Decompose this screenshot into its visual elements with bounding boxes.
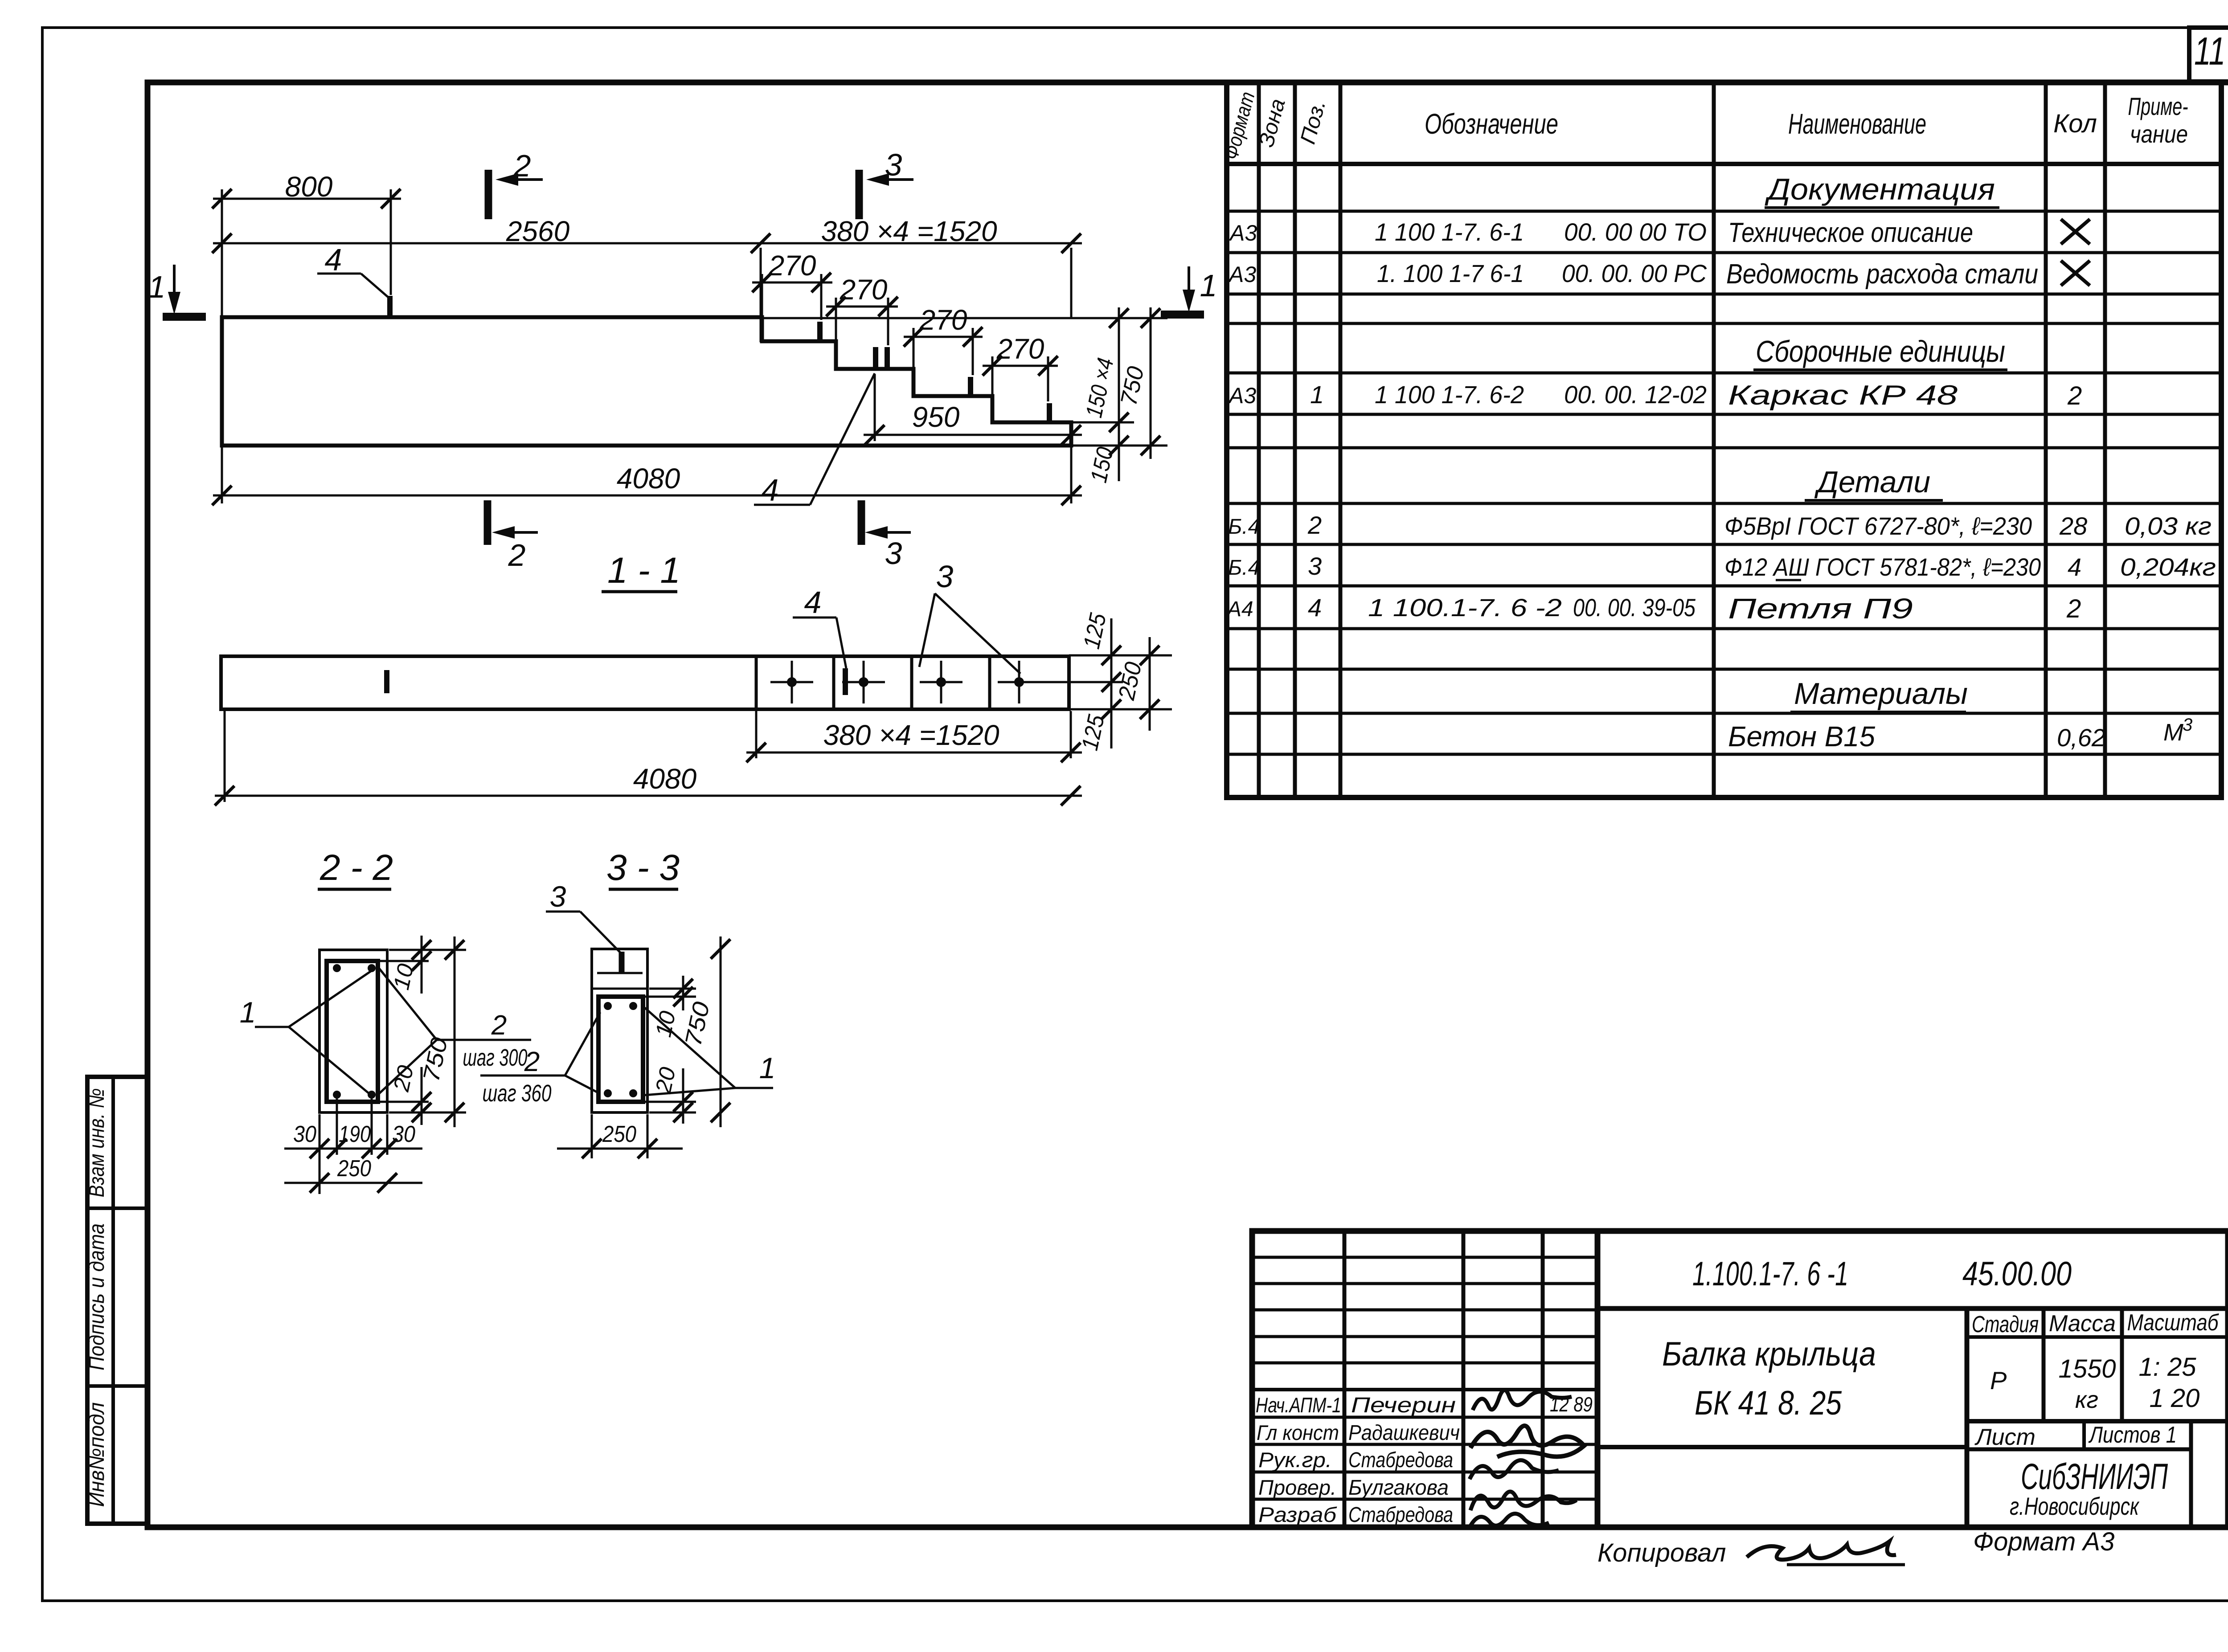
svg-text:Формат А3: Формат А3	[1973, 1527, 2114, 1556]
svg-text:2: 2	[1307, 511, 1322, 539]
lifting loop П9 #3a	[873, 347, 878, 370]
rebar dot top-right	[368, 964, 376, 972]
svg-text:Ф12 АШ ГОСТ 5781-82*, ℓ=230: Ф12 АШ ГОСТ 5781-82*, ℓ=230	[1724, 553, 2041, 581]
section 3-3 stirrup cage	[598, 997, 643, 1102]
масса col divider	[2120, 1309, 2124, 1421]
lifting loop П9 #4	[968, 377, 973, 397]
plan dim 4080	[224, 711, 226, 802]
стадия table divider	[1965, 1309, 1970, 1527]
right ext 1000	[1071, 445, 1167, 447]
svg-text:Р: Р	[1990, 1366, 2007, 1394]
svg-text:2: 2	[524, 1047, 540, 1077]
row rule 1130	[1227, 502, 2221, 505]
svg-text:Петля П9: Петля П9	[1728, 593, 1913, 625]
sidebar label column divider	[111, 1077, 115, 1524]
dim line 2560 / 380x4=1520	[213, 242, 1082, 245]
row rule 1315	[1227, 585, 2221, 588]
svg-text:чание: чание	[2130, 120, 2188, 148]
svg-text:А3: А3	[1228, 383, 1256, 408]
svg-text:4: 4	[762, 473, 779, 507]
svg-text:950: 950	[912, 401, 960, 433]
svg-text:1 100 1-7. 6-1: 1 100 1-7. 6-1	[1375, 218, 1524, 246]
row rule 930	[1227, 413, 2221, 416]
top reference line to right dims	[762, 317, 1167, 319]
signature scribble Печерин	[1473, 1390, 1572, 1410]
rebar dot top-left	[333, 964, 341, 972]
svg-text:Листов 1: Листов 1	[2088, 1422, 2177, 1448]
svg-text:00. 00. 12-02: 00. 00. 12-02	[1564, 380, 1707, 409]
svg-text:А3: А3	[1228, 262, 1256, 287]
signature rows top rule	[1252, 1388, 1597, 1391]
rebar dot bottom-right	[368, 1091, 376, 1099]
section mark 3 top: bar	[856, 170, 863, 219]
dim 20 section 3-3	[645, 1101, 696, 1103]
svg-text:3: 3	[885, 536, 902, 571]
plan divider 3	[910, 656, 913, 709]
svg-text:190: 190	[339, 1121, 371, 1147]
sidebar row divider 1	[87, 1206, 147, 1210]
title block main divider	[1595, 1231, 1601, 1527]
section mark 3 bottom: bar	[858, 500, 865, 545]
left sidebar stamp boxes	[87, 1077, 147, 1524]
row rule 1005	[1227, 446, 2221, 450]
upper stamp row 1	[1252, 1256, 1597, 1259]
ext line left edge top	[221, 189, 223, 317]
копировал signature scribble	[1747, 1542, 1896, 1560]
ext line right edge top	[1070, 248, 1073, 317]
svg-text:Булгакова: Булгакова	[1348, 1476, 1449, 1500]
narrow right col divider	[2189, 1421, 2193, 1527]
row rule 726	[1227, 322, 2221, 325]
svg-text:Инв№подл: Инв№подл	[85, 1403, 109, 1507]
svg-text:2: 2	[2066, 594, 2081, 623]
svg-text:Приме-: Приме-	[2128, 92, 2188, 120]
plan dim line 125/125	[1110, 618, 1113, 748]
loop anchor cross 3	[920, 661, 962, 703]
section mark 3 bottom: arrow	[873, 531, 911, 534]
svg-text:3: 3	[2183, 715, 2192, 735]
doc number band rule	[1597, 1306, 2228, 1311]
svg-text:Рук.гр.: Рук.гр.	[1258, 1448, 1332, 1472]
row rule 1601	[1227, 712, 2221, 715]
row Ведомость: qty X	[2061, 261, 2090, 286]
svg-text:Ф5ВрI ГОСТ 6727-80*, ℓ=230: Ф5ВрI ГОСТ 6727-80*, ℓ=230	[1724, 512, 2032, 540]
beam plan outline	[221, 656, 1069, 709]
plan divider 4	[988, 656, 991, 709]
rebar dot top-left	[604, 1002, 612, 1010]
лист divider	[2082, 1421, 2086, 1449]
svg-text:БК 41 8. 25: БК 41 8. 25	[1695, 1384, 1842, 1422]
svg-text:1: 25: 1: 25	[2139, 1353, 2197, 1382]
svg-text:250: 250	[337, 1156, 371, 1182]
svg-text:А4: А4	[1226, 597, 1253, 621]
upper stamp row 5	[1252, 1362, 1597, 1365]
lifting loop П9 #5	[1047, 403, 1052, 423]
dim 270 #1	[761, 274, 763, 339]
лист row rule	[1967, 1419, 2228, 1423]
signature row rule 5	[1252, 1498, 1597, 1501]
svg-text:800: 800	[285, 171, 333, 203]
svg-text:Техническое описание: Техническое описание	[1728, 217, 1973, 248]
dim 4080 elevation	[221, 447, 223, 503]
section 3-3 bottom ext lines	[591, 1114, 593, 1158]
plan loop bar 2	[843, 668, 848, 695]
ext line step1 top	[760, 248, 762, 342]
svg-text:270: 270	[840, 274, 888, 306]
svg-text:380 ×4 =1520: 380 ×4 =1520	[821, 215, 997, 247]
section mark 1 left: bar	[163, 313, 206, 321]
svg-text:1 100.1-7. 6 -2: 1 100.1-7. 6 -2	[1368, 593, 1562, 622]
svg-text:2: 2	[491, 1010, 507, 1041]
section 3-3 loop bar	[619, 952, 625, 973]
svg-text:Документация: Документация	[1765, 172, 1995, 206]
section 2-2 stirrup cage	[327, 961, 378, 1102]
svg-text:2 - 2: 2 - 2	[319, 847, 393, 888]
plan dim line 250	[1149, 637, 1151, 731]
svg-text:шаг 300: шаг 300	[463, 1044, 528, 1071]
section mark 2 top: bar	[485, 170, 492, 219]
svg-text:Стабредова: Стабредова	[1348, 1503, 1453, 1527]
title block vertical 3462	[1541, 1231, 1545, 1527]
svg-text:1550: 1550	[2058, 1354, 2116, 1383]
svg-text:1 100 1-7. 6-2: 1 100 1-7. 6-2	[1375, 380, 1524, 409]
svg-text:30: 30	[293, 1121, 316, 1147]
svg-text:Копировал: Копировал	[1597, 1538, 1726, 1567]
dim 250 section 3-3	[557, 1148, 683, 1150]
svg-text:1: 1	[240, 996, 256, 1029]
right ext 948	[1071, 421, 1134, 424]
svg-text:Детали: Детали	[1814, 465, 1930, 499]
section 2-2 concrete outline	[319, 950, 387, 1112]
svg-text:Подпись и дата: Подпись и дата	[85, 1223, 109, 1370]
svg-text:Масса: Масса	[2049, 1311, 2116, 1337]
dim 270 #3	[913, 328, 915, 394]
row rule 474	[1227, 210, 2221, 213]
svg-text:Провер.: Провер.	[1258, 1476, 1336, 1499]
svg-text:Материалы: Материалы	[1794, 677, 1968, 711]
svg-text:Ведомость расхода стали: Ведомость расхода стали	[1726, 259, 2038, 290]
section mark 1 right: bar	[1161, 311, 1204, 319]
стадия col divider	[2042, 1309, 2046, 1421]
svg-text:0,62: 0,62	[2057, 724, 2105, 752]
row rule 1222	[1227, 543, 2221, 546]
svg-text:Стадия: Стадия	[1972, 1312, 2039, 1337]
svg-text:270: 270	[919, 304, 967, 336]
row rule 1411	[1227, 627, 2221, 630]
signature scribble Стабредова 2	[1470, 1513, 1549, 1527]
signature scribble Стабредова	[1470, 1460, 1559, 1480]
стадия header rule	[1967, 1335, 2228, 1339]
plan loop bar 1	[384, 670, 389, 693]
loop anchor cross 1	[770, 661, 813, 703]
svg-text:Каркас КР 48: Каркас КР 48	[1728, 380, 1958, 411]
lifting loop П9 #1	[387, 296, 393, 318]
plan right ext mid	[1040, 681, 1123, 683]
svg-text:Печерин: Печерин	[1351, 1394, 1456, 1417]
ext line loop1	[390, 189, 392, 295]
svg-text:1.100.1-7. 6 -1: 1.100.1-7. 6 -1	[1692, 1255, 1848, 1293]
row rule 837	[1227, 372, 2221, 375]
upper stamp row 3	[1252, 1309, 1597, 1312]
svg-text:270: 270	[768, 249, 816, 282]
dim 750 section 3-3	[720, 936, 722, 1127]
svg-text:4: 4	[804, 585, 822, 620]
rebar dot bottom-left	[604, 1089, 612, 1097]
svg-text:2: 2	[513, 148, 531, 183]
section 3-3 concrete outline	[592, 949, 647, 1112]
page number box	[2189, 28, 2228, 82]
svg-text:Масштаб: Масштаб	[2127, 1310, 2219, 1336]
svg-text:3: 3	[936, 559, 954, 594]
лист bottom rule	[1967, 1448, 2191, 1452]
signature row rule 2	[1252, 1416, 1597, 1419]
spec table outer box	[1227, 82, 2221, 797]
name box rule	[1597, 1445, 1967, 1449]
upper stamp row 2	[1252, 1282, 1597, 1285]
lifting loop П9 #3b	[885, 347, 890, 370]
svg-text:3: 3	[1308, 552, 1322, 580]
section mark 2 top: arrow	[504, 178, 543, 181]
signature scribble Радашкевич	[1470, 1426, 1584, 1457]
svg-text:3: 3	[885, 147, 902, 182]
svg-text:Взам инв. №: Взам инв. №	[85, 1088, 109, 1198]
row rule 1693	[1227, 753, 2221, 756]
svg-text:М: М	[2163, 719, 2183, 746]
upper stamp row 4	[1252, 1335, 1597, 1338]
svg-text:Б.4: Б.4	[1228, 515, 1260, 539]
svg-text:0,03 кг: 0,03 кг	[2125, 512, 2212, 540]
right dim line 150x4	[1118, 307, 1120, 481]
row rule 1502	[1227, 668, 2221, 671]
svg-text:Радашкевич: Радашкевич	[1348, 1421, 1460, 1445]
signature row rule 4	[1252, 1471, 1597, 1474]
col divider Поз	[1339, 82, 1343, 797]
svg-text:4080: 4080	[633, 763, 697, 795]
section mark 2 bottom: bar	[484, 500, 491, 545]
svg-text:Сборочные единицы: Сборочные единицы	[1756, 335, 2005, 368]
section mark 1 left: arrow	[173, 265, 176, 307]
svg-text:2: 2	[2067, 381, 2082, 410]
svg-text:00. 00. 00 РС: 00. 00. 00 РС	[1562, 259, 1707, 287]
svg-text:270: 270	[996, 333, 1044, 365]
right dim line 750	[1150, 307, 1152, 459]
svg-text:Наименование: Наименование	[1788, 108, 1926, 140]
row Техническое описание: qty X	[2061, 219, 2090, 244]
svg-text:10: 10	[389, 961, 418, 992]
svg-text:Бетон В15: Бетон В15	[1728, 720, 1875, 752]
svg-text:Стабредова: Стабредова	[1348, 1448, 1453, 1472]
svg-text:3 - 3: 3 - 3	[606, 847, 680, 888]
dim 10 section 3-3	[649, 988, 696, 990]
section mark 3 top: arrow	[874, 178, 913, 181]
sidebar row divider 2	[87, 1384, 147, 1388]
svg-text:2560: 2560	[506, 215, 570, 247]
svg-text:1: 1	[148, 270, 166, 304]
title block outer box	[1252, 1231, 2228, 1527]
dim 750 section 2-2	[454, 936, 456, 1127]
signature scribble Булгакова	[1470, 1492, 1577, 1510]
svg-text:1: 1	[1200, 268, 1217, 303]
svg-text:1: 1	[759, 1051, 776, 1084]
dim 20 section 2-2	[380, 1101, 429, 1103]
svg-text:Лист: Лист	[1974, 1424, 2036, 1450]
svg-text:250: 250	[602, 1121, 636, 1147]
title block vertical 3017	[1343, 1231, 1347, 1527]
svg-text:0,204кг: 0,204кг	[2120, 553, 2216, 581]
plan right ext bottom	[1069, 708, 1172, 711]
svg-text:30: 30	[392, 1121, 415, 1147]
col divider Формат	[1257, 82, 1261, 797]
svg-text:3: 3	[550, 880, 566, 913]
dim line 800	[213, 198, 401, 200]
svg-text:00. 00. 39-05: 00. 00. 39-05	[1573, 593, 1696, 622]
svg-text:шаг 360: шаг 360	[483, 1080, 552, 1107]
dim 30/190/30 section 2-2	[284, 1148, 422, 1150]
plan right ext top	[1069, 654, 1172, 657]
svg-text:4080: 4080	[617, 462, 680, 495]
svg-text:28: 28	[2059, 512, 2087, 540]
loop anchor cross 2	[842, 661, 885, 703]
svg-text:Балка крыльца: Балка крыльца	[1662, 1335, 1876, 1373]
svg-text:4: 4	[325, 242, 342, 277]
section 2-2 bottom ext lines	[319, 1114, 321, 1194]
svg-text:1: 1	[1310, 380, 1324, 409]
svg-text:Обозначение: Обозначение	[1425, 108, 1558, 140]
svg-text:2: 2	[508, 538, 526, 572]
svg-text:Кол: Кол	[2053, 109, 2097, 138]
col divider Обозначение	[1712, 82, 1716, 797]
svg-text:45.00.00: 45.00.00	[1962, 1255, 2072, 1293]
svg-text:1. 100 1-7 6-1: 1. 100 1-7 6-1	[1377, 259, 1524, 287]
svg-text:1 20: 1 20	[2150, 1384, 2200, 1413]
svg-text:4: 4	[2068, 553, 2081, 581]
section 3-3 step line	[592, 988, 647, 990]
col divider Кол	[2103, 82, 2107, 797]
loop anchor cross 4	[998, 661, 1040, 703]
rebar dot bottom-left	[333, 1091, 341, 1099]
rebar dot bottom-right	[629, 1089, 637, 1097]
dim 270 #4	[991, 356, 994, 421]
col divider Наименование	[2044, 82, 2048, 797]
plan divider 1	[755, 656, 758, 709]
svg-text:00. 00 00 ТО: 00. 00 00 ТО	[1564, 218, 1707, 246]
plan dim 380x4=1520	[755, 711, 758, 758]
dim 10 section 2-2	[380, 960, 429, 962]
beam elevation outline	[222, 317, 1071, 446]
svg-text:А3: А3	[1229, 221, 1257, 245]
section mark 2 bottom: arrow	[500, 531, 538, 534]
svg-text:СибЗНИИЭП: СибЗНИИЭП	[2021, 1456, 2168, 1497]
col divider Зона	[1293, 82, 1297, 797]
svg-text:Нач.АПМ-1: Нач.АПМ-1	[1256, 1393, 1341, 1417]
signature row rule 3	[1252, 1443, 1597, 1446]
svg-text:4: 4	[1308, 593, 1322, 622]
svg-text:Разраб: Разраб	[1258, 1503, 1337, 1526]
rebar dot top-right	[629, 1002, 637, 1010]
dim 270 #2	[835, 298, 837, 367]
plan divider 2	[832, 656, 835, 709]
title block vertical 3284	[1462, 1231, 1466, 1527]
svg-text:Гл конст: Гл конст	[1257, 1421, 1339, 1444]
row rule 660	[1227, 293, 2221, 296]
row rule 567	[1227, 251, 2221, 254]
dim 950	[874, 374, 876, 441]
svg-text:380 ×4 =1520: 380 ×4 =1520	[823, 719, 999, 751]
section 3-3 loop seat line	[597, 972, 643, 974]
svg-text:117: 117	[2194, 29, 2228, 73]
svg-text:Б.4: Б.4	[1228, 556, 1260, 580]
svg-text:кг: кг	[2075, 1386, 2098, 1413]
svg-text:1 - 1: 1 - 1	[607, 550, 680, 591]
svg-text:г.Новосибирск: г.Новосибирск	[2010, 1492, 2140, 1520]
dim 250 section 2-2	[284, 1182, 422, 1184]
lifting loop П9 #2	[817, 322, 823, 342]
section mark 1 right: arrow	[1188, 266, 1190, 305]
header bottom rule	[1227, 162, 2221, 166]
